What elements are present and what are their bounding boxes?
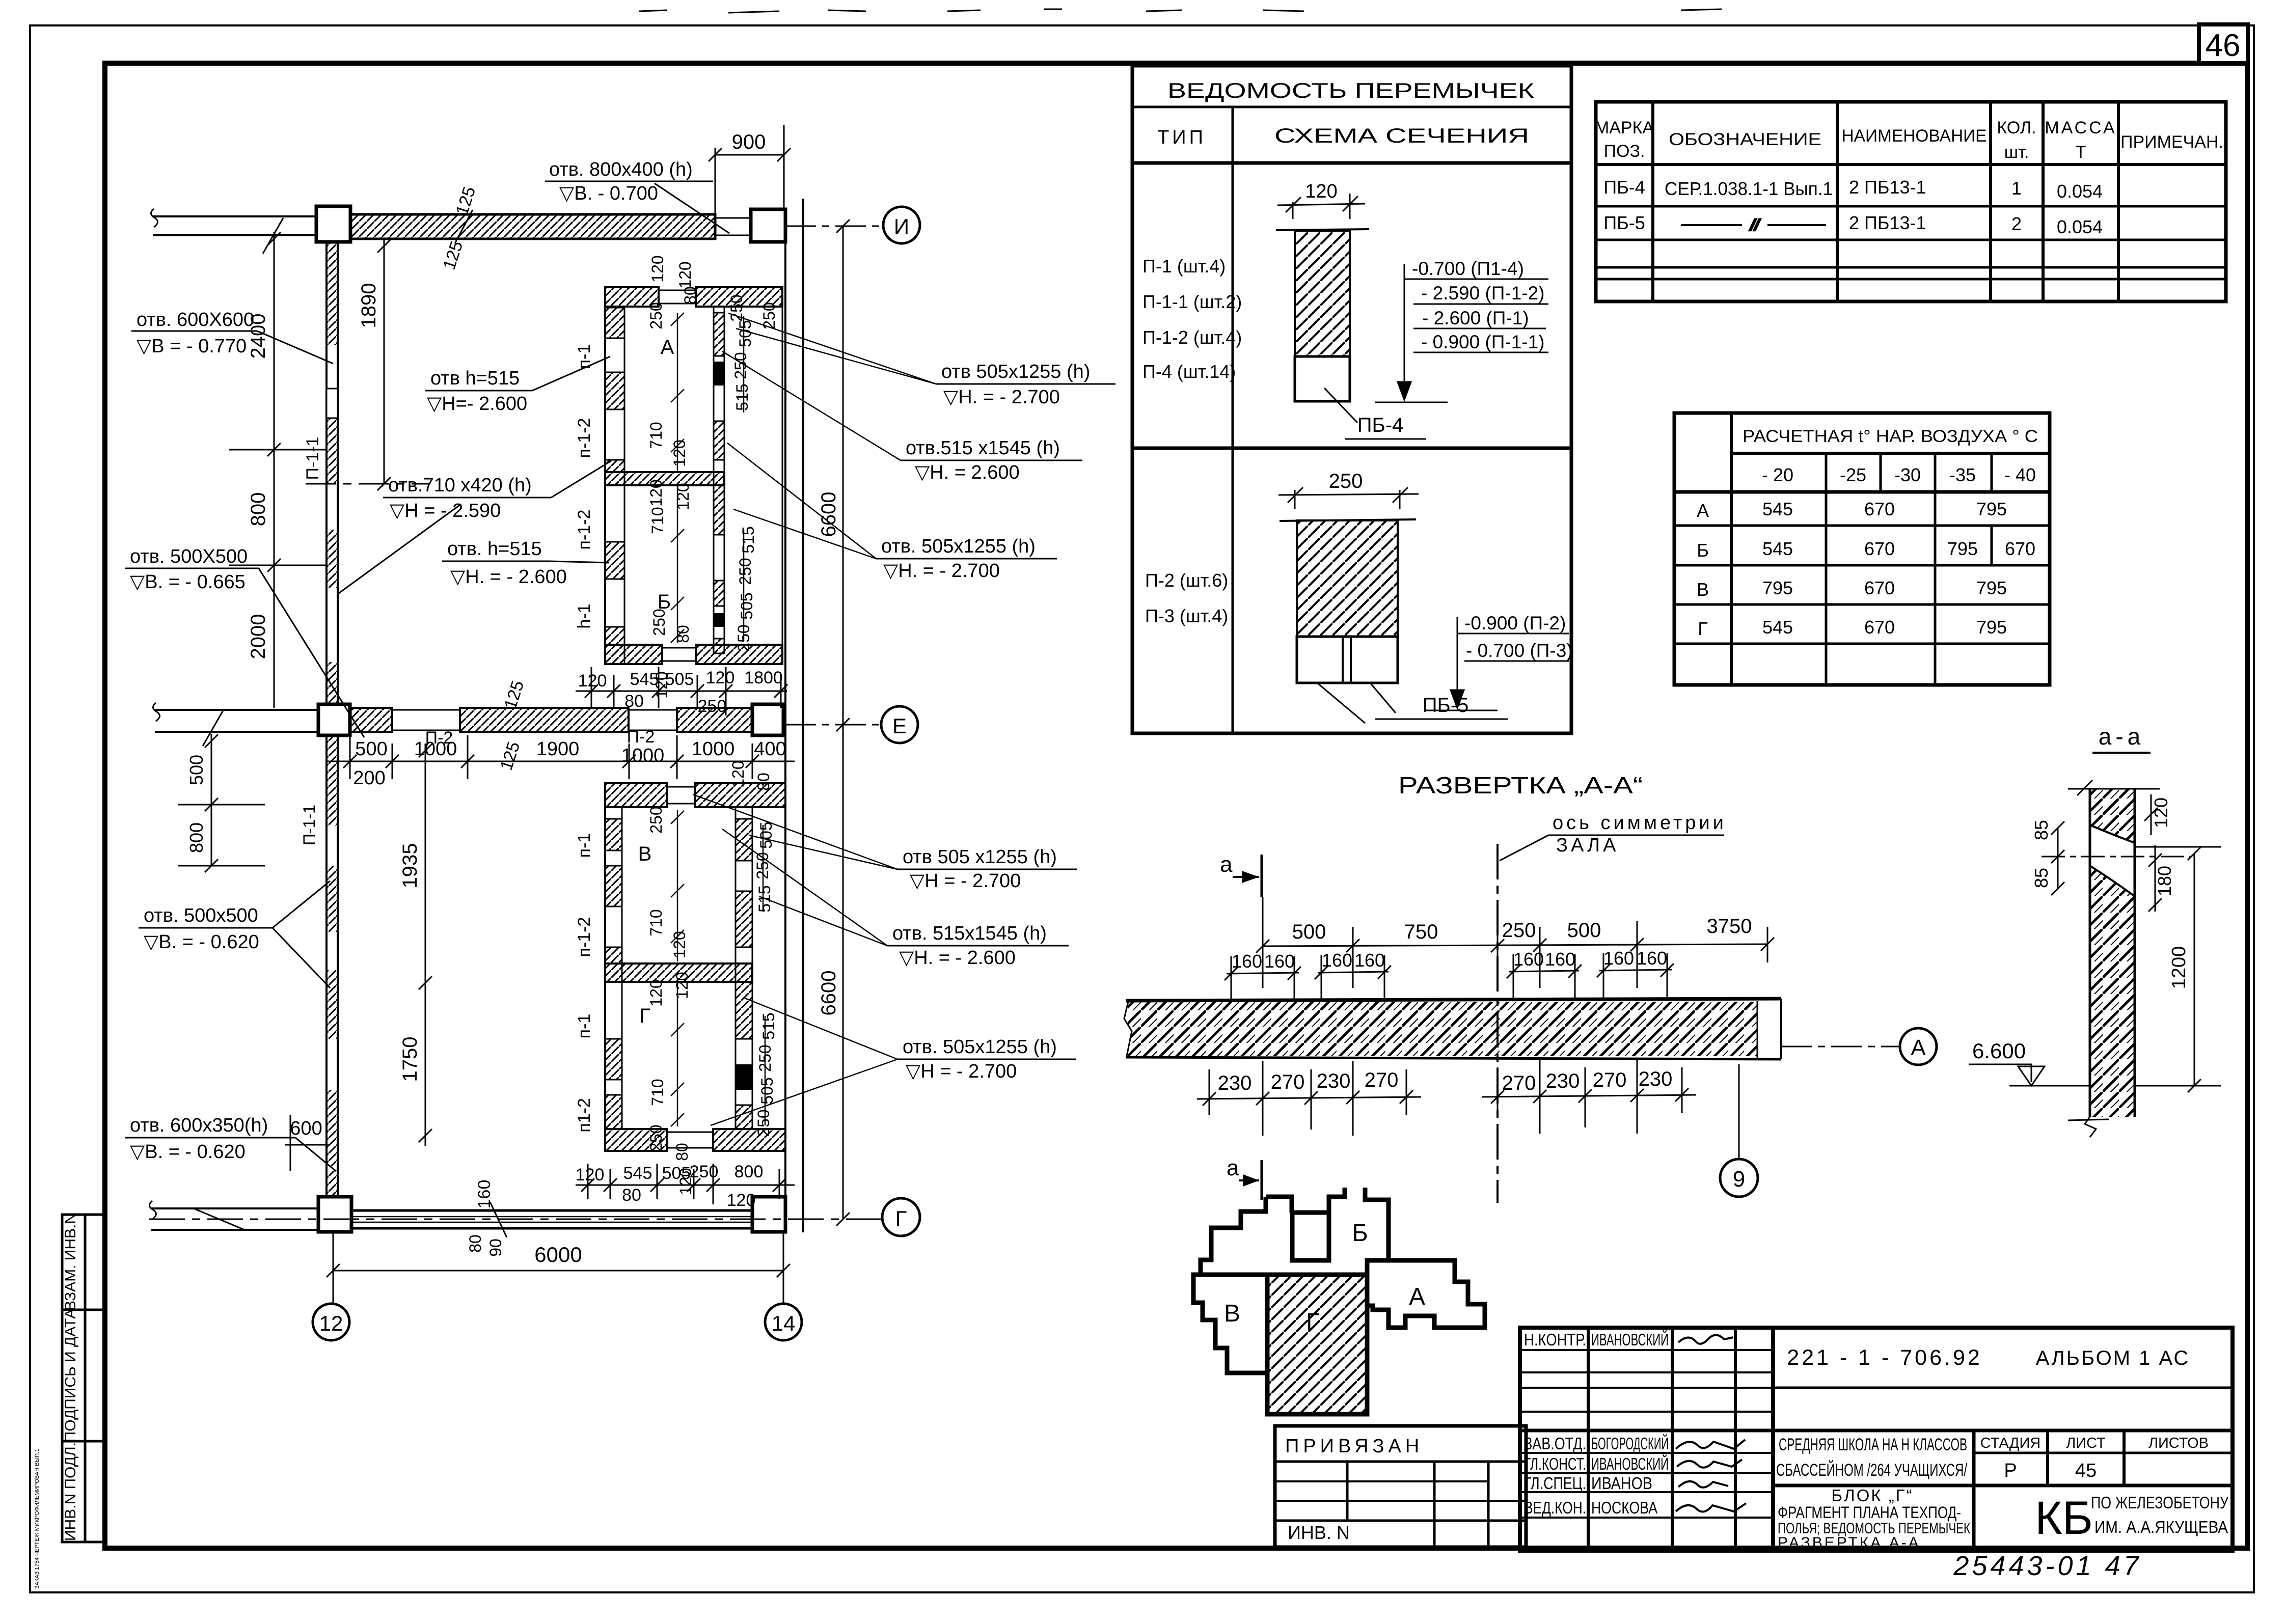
svg-text:А: А (1409, 1283, 1425, 1310)
svg-text:ПРИМЕЧАН.: ПРИМЕЧАН. (2120, 132, 2223, 152)
svg-text:230: 230 (1546, 1070, 1580, 1092)
svg-text:отв. 500х500: отв. 500х500 (144, 905, 258, 926)
svg-text:1900: 1900 (536, 738, 580, 760)
svg-text:КБ: КБ (2035, 1492, 2093, 1544)
lintel schedule table (Ведомость перемычек) (1132, 66, 1571, 733)
svg-text:ВЕД.КОН.: ВЕД.КОН. (1524, 1498, 1586, 1517)
svg-text:▽Н. = 2.600: ▽Н. = 2.600 (915, 462, 1020, 483)
svg-text:270: 270 (1365, 1069, 1399, 1091)
svg-text:160: 160 (1545, 949, 1575, 970)
svg-text:▽Н = - 2.700: ▽Н = - 2.700 (906, 1061, 1017, 1082)
svg-text:505: 505 (736, 320, 754, 347)
svg-text:250: 250 (647, 806, 665, 833)
svg-text:отв.710 х420 (h): отв.710 х420 (h) (388, 475, 532, 496)
bottom dim 6000 and circles 12/14 (326, 1232, 790, 1304)
svg-text:545: 545 (1762, 499, 1793, 519)
svg-text:25443-01 47: 25443-01 47 (1953, 1551, 2141, 1581)
svg-text:500: 500 (186, 755, 207, 785)
svg-text:670: 670 (1864, 617, 1895, 638)
section mark a (bottom) (1227, 1155, 1262, 1200)
svg-text:710: 710 (648, 507, 667, 534)
svg-text:2000: 2000 (247, 614, 269, 659)
svg-text:ЗАКАЗ 1754 ЧЕРТЕЖ МИКРОФИЛЬМИР: ЗАКАЗ 1754 ЧЕРТЕЖ МИКРОФИЛЬМИРОВАН ВЫП.1 (34, 1449, 40, 1589)
svg-text:ПБ-4: ПБ-4 (1357, 414, 1404, 436)
svg-text:230: 230 (1218, 1072, 1252, 1094)
block В outline (1193, 1275, 1268, 1373)
block А outline (1367, 1260, 1485, 1328)
svg-text:120: 120 (673, 972, 691, 999)
svg-text:2 ПБ13-1: 2 ПБ13-1 (1849, 212, 1926, 233)
svg-text:0.054: 0.054 (2057, 181, 2103, 202)
section a-a detail (2031, 723, 2221, 1137)
svg-text:750: 750 (1404, 921, 1438, 943)
svg-text:▽Н=- 2.600: ▽Н=- 2.600 (427, 393, 527, 415)
svg-text:п-1: п-1 (575, 1014, 594, 1039)
svg-text:795: 795 (1976, 499, 2007, 519)
svg-text:РАСЧЕТНАЯ t° НАР. ВОЗДУХА ° С: РАСЧЕТНАЯ t° НАР. ВОЗДУХА ° С (1743, 427, 2038, 446)
svg-text:3750: 3750 (1707, 915, 1752, 938)
svg-text:670: 670 (1864, 499, 1895, 519)
svg-text:А: А (661, 336, 674, 359)
svg-text:80: 80 (754, 773, 773, 791)
svg-text:1: 1 (2011, 178, 2022, 199)
svg-text:0.054: 0.054 (2057, 216, 2103, 237)
svg-text:795: 795 (1976, 617, 2007, 638)
svg-text:РАЗВЕРТКА А-А.: РАЗВЕРТКА А-А. (1778, 1534, 1927, 1551)
svg-text:шт.: шт. (2004, 143, 2029, 162)
svg-text:1750: 1750 (399, 1037, 421, 1082)
svg-text:250: 250 (736, 558, 754, 585)
svg-text:160: 160 (1322, 950, 1352, 971)
svg-text:230: 230 (1639, 1068, 1673, 1090)
svg-text:- 2.590 (П-1-2): - 2.590 (П-1-2) (1421, 283, 1545, 304)
bottom wall (605, 1129, 667, 1151)
svg-text:Г: Г (1698, 618, 1708, 639)
svg-text:795: 795 (1976, 577, 2007, 598)
title block (1520, 1328, 2233, 1551)
center dash line through notch (2042, 856, 2190, 858)
svg-text:160: 160 (1264, 951, 1295, 972)
svg-text:МАРКА: МАРКА (1595, 118, 1654, 137)
svg-text:160: 160 (1637, 948, 1667, 969)
svg-text:ИВАНОВСКИЙ: ИВАНОВСКИЙ (1591, 1330, 1669, 1349)
svg-text:отв. 505х1255 (h): отв. 505х1255 (h) (903, 1036, 1057, 1058)
svg-text:ИВАНОВ: ИВАНОВ (1591, 1474, 1652, 1493)
left stamp column (62, 1215, 106, 1542)
hatched block Г (1267, 1275, 1367, 1414)
row 2 lintel sketch ПБ-5 (1278, 470, 1508, 723)
svg-text:600: 600 (290, 1118, 322, 1139)
svg-text:П-2 (шт.6): П-2 (шт.6) (1145, 570, 1228, 591)
svg-text:1935: 1935 (399, 843, 421, 889)
axis И line + circle (785, 226, 883, 227)
svg-text:▽В. = - 0.665: ▽В. = - 0.665 (130, 571, 246, 593)
svg-text:1800: 1800 (744, 668, 783, 687)
grid circle А (1900, 1028, 1937, 1065)
svg-text:120: 120 (648, 255, 667, 282)
svg-text:670: 670 (1864, 577, 1895, 598)
svg-text:120: 120 (676, 261, 694, 288)
svg-text:515: 515 (733, 383, 751, 410)
svg-text:Г: Г (1306, 1309, 1319, 1336)
svg-text:отв. 600Х600: отв. 600Х600 (137, 309, 254, 331)
svg-text:710: 710 (648, 1079, 667, 1106)
svg-text:СХЕМА СЕЧЕНИЯ: СХЕМА СЕЧЕНИЯ (1274, 125, 1529, 147)
parts list table top right (1596, 102, 2226, 301)
svg-text:-25: -25 (1840, 464, 1866, 485)
svg-text:270: 270 (1593, 1069, 1627, 1091)
svg-text:- 40: - 40 (2004, 464, 2036, 485)
svg-text:ПБ-4: ПБ-4 (1603, 177, 1645, 198)
svg-text:▽В = - 0.770: ▽В = - 0.770 (137, 336, 247, 357)
symmetry axis line (1496, 844, 1499, 1203)
svg-text:отв. h=515: отв. h=515 (447, 538, 542, 560)
svg-text:НАИМЕНОВАНИЕ: НАИМЕНОВАНИЕ (1842, 126, 1987, 146)
svg-text:И: И (894, 214, 909, 238)
svg-text:1000: 1000 (621, 745, 665, 766)
svg-text:В: В (1697, 579, 1709, 600)
svg-text:п-1: п-1 (575, 344, 594, 369)
svg-text:2 ПБ13-1: 2 ПБ13-1 (1849, 177, 1926, 198)
left signature grid (1587, 1328, 1590, 1551)
svg-text:800: 800 (186, 822, 207, 853)
svg-text:Р: Р (2004, 1460, 2017, 1481)
inner right wall (735, 807, 737, 1129)
svg-text:Е: Е (892, 714, 907, 738)
svg-text:- 0.900 (П-1-1): - 0.900 (П-1-1) (1421, 332, 1545, 352)
svg-text:БЛОК „Г“: БЛОК „Г“ (1831, 1486, 1913, 1505)
svg-text:80: 80 (624, 692, 644, 711)
inner dim texts (rotated) upper cluster (647, 255, 778, 698)
svg-text:СБАССЕЙНОМ /264 УЧАЩИХСЯ/: СБАССЕЙНОМ /264 УЧАЩИХСЯ/ (1776, 1461, 1967, 1480)
development beam (1124, 999, 1781, 1059)
top dimension chain 500 750 250 500 3750 (1256, 897, 1774, 988)
svg-text:п-1-2: п-1-2 (575, 418, 594, 458)
svg-text:а-а: а-а (2099, 723, 2144, 750)
svg-text:200: 200 (353, 767, 385, 789)
svg-text:1000: 1000 (692, 738, 735, 760)
svg-text:120: 120 (2151, 797, 2171, 828)
svg-text:545: 545 (630, 670, 659, 689)
svg-text:120: 120 (729, 760, 747, 787)
120/180 dims right (2151, 794, 2152, 835)
svg-text:230: 230 (1317, 1070, 1351, 1092)
bottom dimension chains 230/270 (1197, 1059, 1696, 1136)
svg-text:ИМ. А.А.ЯКУЩЕВА: ИМ. А.А.ЯКУЩЕВА (2094, 1518, 2228, 1536)
svg-text:6.600: 6.600 (1972, 1039, 2026, 1063)
svg-text:80: 80 (674, 625, 692, 643)
svg-text:45: 45 (2075, 1460, 2097, 1481)
svg-text:П-2: П-2 (425, 728, 453, 748)
svg-text:ИНВ. N: ИНВ. N (1288, 1522, 1350, 1543)
inner dim texts lower cluster (647, 760, 778, 1195)
svg-text:250: 250 (690, 1162, 719, 1181)
svg-text:120: 120 (727, 1191, 756, 1210)
svg-text:500: 500 (355, 738, 387, 760)
svg-text:ИВАНОВСКИЙ: ИВАНОВСКИЙ (1591, 1454, 1669, 1473)
signatures squiggles (1676, 1335, 1746, 1511)
dim chain below Е wall (326, 735, 795, 779)
svg-text:270: 270 (1502, 1072, 1536, 1094)
1200 dim (2194, 854, 2195, 1086)
svg-text:12: 12 (319, 1311, 343, 1335)
svg-text:795: 795 (1947, 538, 1978, 559)
svg-text:160: 160 (1513, 949, 1544, 970)
svg-text:ЛИСТ: ЛИСТ (2066, 1435, 2106, 1451)
svg-text:- 20: - 20 (1762, 464, 1793, 485)
svg-text:270: 270 (1271, 1071, 1305, 1093)
svg-text:46: 46 (2206, 28, 2241, 63)
row 1 elevation marks (1412, 258, 1545, 352)
svg-text:а: а (1227, 1155, 1239, 1180)
85/85 dims (2057, 828, 2059, 889)
svg-text:1890: 1890 (358, 283, 380, 328)
svg-text:ПОЗ.: ПОЗ. (1604, 142, 1645, 161)
left wall (604, 783, 606, 1151)
svg-text:ПОДПИСЬ И ДАТА: ПОДПИСЬ И ДАТА (62, 1309, 79, 1443)
row 1 lintel sketch ПБ-4 (1276, 181, 1426, 439)
svg-text:отв 505 х1255 (h): отв 505 х1255 (h) (903, 846, 1057, 868)
svg-text:МАССА: МАССА (2045, 118, 2116, 137)
svg-text:505: 505 (662, 1164, 691, 1183)
svg-text:ПО ЖЕЛЕЗОБЕТОНУ: ПО ЖЕЛЕЗОБЕТОНУ (2091, 1493, 2229, 1512)
right part lines (1773, 1387, 2233, 1389)
svg-text:-35: -35 (1949, 464, 1976, 485)
svg-text:АЛЬБОМ 1 АС: АЛЬБОМ 1 АС (2036, 1347, 2190, 1369)
svg-text:а: а (1220, 852, 1233, 877)
right grid verticals (784, 239, 786, 1197)
svg-text:-0.700 (П1-4): -0.700 (П1-4) (1412, 258, 1524, 279)
svg-text:14: 14 (772, 1311, 796, 1335)
dim 900 above И wall (709, 125, 791, 214)
svg-text:П-2: П-2 (627, 727, 655, 747)
svg-text:ПРИВЯЗАН: ПРИВЯЗАН (1285, 1436, 1423, 1457)
svg-text:ВЗАМ. ИНВ.N: ВЗАМ. ИНВ.N (62, 1213, 79, 1311)
svg-text:795: 795 (1762, 577, 1793, 598)
svg-text:отв.515 х1545 (h): отв.515 х1545 (h) (906, 437, 1060, 459)
svg-text:900: 900 (732, 131, 766, 153)
svg-text:▽В. = - 0.620: ▽В. = - 0.620 (130, 1141, 246, 1163)
1890 dim (306, 239, 430, 490)
svg-text:120: 120 (647, 979, 665, 1006)
svg-text:ГЛ.КОНСТ.: ГЛ.КОНСТ. (1524, 1454, 1586, 1473)
svg-text:ТИП: ТИП (1157, 127, 1206, 148)
svg-text:ЗАВ.ОТД.: ЗАВ.ОТД. (1524, 1434, 1586, 1453)
upper room cluster (rooms А, Б) (605, 287, 782, 664)
svg-text:250: 250 (647, 1124, 665, 1151)
svg-text:160: 160 (1603, 948, 1634, 969)
middle partition (605, 472, 724, 485)
axis Е wall (middle) (153, 703, 783, 746)
axis И wall (top) (151, 206, 785, 254)
svg-text:710: 710 (647, 422, 665, 449)
ПРИВЯЗАН block (1275, 1426, 1526, 1547)
svg-text:П-1-1 (шт.2): П-1-1 (шт.2) (1142, 291, 1242, 312)
left dim chain (2400 / 800 / 2000) (229, 232, 326, 708)
svg-text:400: 400 (754, 738, 786, 760)
inner vertical dim line upper cluster (671, 313, 744, 643)
svg-text:800: 800 (247, 492, 269, 527)
site key plan sketch (1193, 1188, 1485, 1414)
svg-text:СРЕДНЯЯ ШКОЛА НА Н КЛАССОВ: СРЕДНЯЯ ШКОЛА НА Н КЛАССОВ (1779, 1435, 1967, 1454)
svg-text:-0.900 (П-2): -0.900 (П-2) (1464, 613, 1566, 634)
svg-text:250: 250 (698, 697, 727, 716)
svg-text:Б: Б (1352, 1220, 1368, 1247)
svg-text:П-4 (шт.14): П-4 (шт.14) (1142, 361, 1236, 382)
svg-text:отв h=515: отв h=515 (430, 368, 520, 389)
dim chain below upper cluster (576, 667, 787, 715)
svg-text:515: 515 (739, 526, 757, 553)
sheet number box 46 (2199, 24, 2248, 63)
svg-text:▽Н. = - 2.600: ▽Н. = - 2.600 (899, 947, 1016, 969)
160 dimension pairs (1224, 953, 1674, 1002)
svg-text:6000: 6000 (534, 1243, 582, 1267)
svg-text:80: 80 (622, 1186, 641, 1205)
svg-text:6600: 6600 (818, 971, 840, 1016)
beam axis continuation to circle А (1781, 1046, 1900, 1048)
svg-text:670: 670 (1864, 538, 1895, 559)
svg-text:НОСКОВА: НОСКОВА (1591, 1498, 1657, 1517)
svg-text:отв 505х1255 (h): отв 505х1255 (h) (941, 361, 1090, 382)
svg-text:-30: -30 (1894, 464, 1921, 485)
svg-text:п-1-2: п-1-2 (575, 510, 594, 550)
lower room cluster (rooms В, Г) (605, 783, 785, 1151)
far right boundary (782, 287, 783, 664)
svg-text:80: 80 (466, 1234, 484, 1253)
svg-text:250: 250 (1329, 470, 1363, 492)
svg-text:505: 505 (757, 821, 775, 848)
inner right wall (713, 307, 715, 645)
top wall (605, 783, 667, 807)
svg-text:500: 500 (1567, 919, 1601, 942)
svg-text:В: В (1224, 1300, 1240, 1327)
svg-text:П-1-2 (шт.4): П-1-2 (шт.4) (1142, 327, 1242, 348)
svg-text:2: 2 (2011, 213, 2022, 234)
svg-text:710: 710 (647, 909, 665, 936)
svg-text:800: 800 (734, 1162, 764, 1181)
svg-text:▽Н. = - 2.700: ▽Н. = - 2.700 (883, 560, 1000, 582)
svg-text:250: 250 (647, 302, 665, 329)
svg-text:▽В. - 0.700: ▽В. - 0.700 (559, 183, 658, 204)
top scan dashes (639, 9, 1722, 13)
middle partition (605, 964, 752, 982)
svg-text:- 0.700 (П-3): - 0.700 (П-3) (1466, 640, 1573, 661)
top wall (605, 287, 659, 307)
svg-text:6600: 6600 (818, 492, 840, 537)
svg-text:505: 505 (758, 1077, 776, 1104)
svg-text:120: 120 (674, 483, 692, 510)
svg-text:545: 545 (1762, 617, 1793, 638)
svg-text:250: 250 (754, 1109, 773, 1136)
svg-text:▽Н. = - 2.700: ▽Н. = - 2.700 (943, 387, 1060, 408)
dim chain below lower cluster (576, 1164, 795, 1204)
svg-text:505: 505 (738, 592, 756, 619)
svg-text:СТАДИЯ: СТАДИЯ (1980, 1435, 2040, 1451)
svg-text:250: 250 (731, 352, 750, 379)
6600 dim line right (836, 219, 850, 1226)
svg-text:ГЛ.СПЕЦ.: ГЛ.СПЕЦ. (1524, 1474, 1586, 1493)
svg-text:Н.КОНТР.: Н.КОНТР. (1524, 1330, 1586, 1349)
row 2 elevation marks (1464, 613, 1573, 661)
svg-text:9: 9 (1733, 1167, 1745, 1192)
svg-text:СЕР.1.038.1-1 Вып.1: СЕР.1.038.1-1 Вып.1 (1665, 178, 1833, 199)
grid circle 9 (1738, 1064, 1740, 1160)
svg-text:Т: Т (2076, 143, 2086, 162)
svg-text:545: 545 (623, 1164, 652, 1183)
svg-text:А: А (1697, 500, 1709, 521)
section mark a (top) (1220, 852, 1262, 897)
svg-text:ФРАГМЕНТ ПЛАНА ТЕХПОД-: ФРАГМЕНТ ПЛАНА ТЕХПОД- (1778, 1503, 1961, 1522)
svg-text:515: 515 (759, 1012, 778, 1039)
svg-text:Г: Г (895, 1206, 907, 1230)
svg-text:ИНВ.N ПОДЛ.: ИНВ.N ПОДЛ. (62, 1442, 79, 1541)
svg-text:160: 160 (1354, 950, 1385, 971)
svg-text:В: В (638, 843, 652, 865)
svg-text:ОБОЗНАЧЕНИЕ: ОБОЗНАЧЕНИЕ (1669, 130, 1821, 149)
svg-text:отв. 600х350(h): отв. 600х350(h) (130, 1115, 268, 1136)
svg-text:п-1-2: п-1-2 (575, 917, 594, 957)
svg-text:505: 505 (665, 670, 694, 689)
svg-text:ПБ-5: ПБ-5 (1603, 212, 1645, 233)
svg-text:120: 120 (576, 1165, 605, 1185)
svg-text:Г: Г (639, 1005, 650, 1027)
svg-text:160: 160 (1232, 951, 1262, 972)
svg-text:п1-2: п1-2 (575, 1098, 594, 1133)
left wall (604, 287, 606, 664)
svg-text:отв. 515х1545 (h): отв. 515х1545 (h) (892, 923, 1047, 944)
svg-text:120: 120 (647, 479, 665, 506)
П-1 / П-1-2 labels along clusters (575, 344, 594, 1133)
svg-text:- 2.600 (П-1): - 2.600 (П-1) (1422, 308, 1529, 328)
design temperature table (1674, 413, 2050, 685)
svg-text:ВЕДОМОСТЬ ПЕРЕМЫЧЕК: ВЕДОМОСТЬ ПЕРЕМЫЧЕК (1167, 78, 1535, 102)
bottom wall (605, 645, 662, 664)
svg-text:180: 180 (2154, 866, 2175, 896)
block Б outline (1201, 1197, 1267, 1275)
svg-text:П-1-1: П-1-1 (303, 437, 322, 480)
svg-text:85: 85 (2031, 868, 2052, 888)
svg-text:670: 670 (2005, 538, 2035, 559)
svg-text:80: 80 (681, 286, 699, 305)
1935 / 1750 dim (419, 744, 432, 1146)
svg-text:▽Н = - 2.590: ▽Н = - 2.590 (390, 500, 501, 521)
svg-text:250: 250 (650, 609, 668, 636)
svg-text:120: 120 (706, 668, 735, 687)
svg-text:ЗАЛА: ЗАЛА (1556, 835, 1619, 856)
svg-text:п-1: п-1 (575, 833, 594, 858)
svg-text:А: А (1911, 1035, 1926, 1060)
svg-text:БОГОРОДСКИЙ: БОГОРОДСКИЙ (1591, 1434, 1669, 1453)
svg-text:▽В. = - 0.620: ▽В. = - 0.620 (144, 931, 259, 953)
svg-text:П-1-1: П-1-1 (300, 805, 318, 845)
svg-text:h-1: h-1 (575, 603, 594, 628)
svg-text://: // (1750, 217, 1760, 234)
svg-text:545: 545 (1762, 538, 1793, 559)
svg-text:КОЛ.: КОЛ. (1997, 118, 2036, 137)
svg-text:120: 120 (578, 671, 607, 691)
row 1 type labels (1142, 256, 1242, 382)
svg-text:РАЗВЕРТКА „А-А“: РАЗВЕРТКА „А-А“ (1398, 772, 1643, 799)
svg-text:221 - 1 - 706.92: 221 - 1 - 706.92 (1787, 1345, 1982, 1370)
svg-text:85: 85 (2031, 820, 2052, 840)
svg-text:отв. 505х1255 (h): отв. 505х1255 (h) (881, 536, 1036, 557)
left wall (axis 12) vertical (326, 242, 338, 1208)
svg-text:▽Н = - 2.700: ▽Н = - 2.700 (910, 870, 1021, 892)
axis Г wall (bottom) (149, 1197, 785, 1232)
svg-text:120: 120 (1305, 181, 1337, 202)
inner vertical dim line lower cluster (671, 810, 765, 1126)
svg-text:90: 90 (486, 1238, 505, 1257)
